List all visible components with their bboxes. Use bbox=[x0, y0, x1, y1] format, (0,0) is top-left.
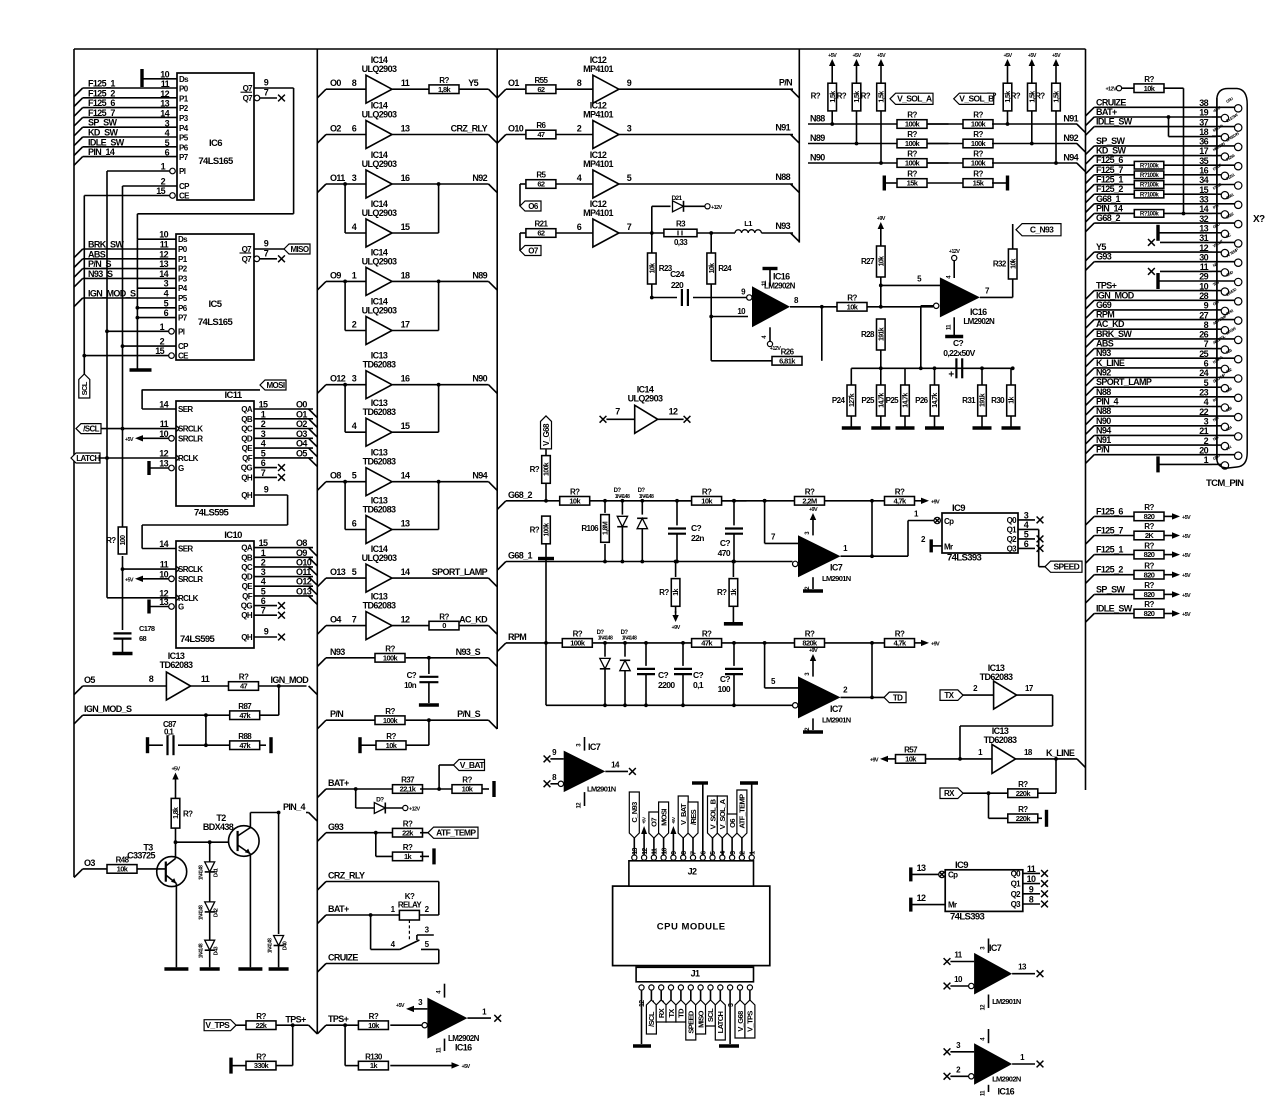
svg-text:V_G68: V_G68 bbox=[542, 423, 551, 446]
svg-text:2: 2 bbox=[160, 337, 165, 347]
svg-text:P/N_S: P/N_S bbox=[457, 709, 481, 719]
svg-text:13: 13 bbox=[159, 459, 168, 469]
svg-text:+5V: +5V bbox=[1182, 534, 1191, 540]
svg-text:IGN_MOD: IGN_MOD bbox=[271, 675, 310, 685]
svg-text:6: 6 bbox=[261, 458, 266, 468]
svg-text:QC: QC bbox=[241, 425, 253, 434]
svg-text:14: 14 bbox=[159, 539, 168, 549]
svg-text:15: 15 bbox=[155, 346, 164, 356]
svg-text:SP_SW: SP_SW bbox=[88, 118, 118, 128]
svg-text:N88: N88 bbox=[1096, 406, 1111, 416]
svg-text:1: 1 bbox=[261, 548, 266, 558]
svg-text:+12V: +12V bbox=[1105, 87, 1116, 93]
svg-text:33: 33 bbox=[1199, 195, 1208, 205]
svg-text:+5V: +5V bbox=[125, 437, 134, 443]
svg-text:15: 15 bbox=[401, 421, 410, 431]
svg-text:IC7: IC7 bbox=[588, 742, 601, 752]
svg-text:1N4148: 1N4148 bbox=[598, 636, 613, 642]
svg-text:R?: R? bbox=[570, 488, 580, 497]
svg-text:ULQ2903: ULQ2903 bbox=[362, 553, 397, 563]
svg-text:1,8k: 1,8k bbox=[173, 807, 180, 819]
svg-text:C?: C? bbox=[658, 670, 669, 680]
svg-text:QE: QE bbox=[242, 444, 254, 453]
svg-text:TD62083: TD62083 bbox=[363, 360, 396, 370]
svg-text:Mr: Mr bbox=[948, 901, 957, 910]
svg-text:1: 1 bbox=[261, 409, 266, 419]
svg-text:7: 7 bbox=[261, 606, 266, 616]
svg-text:PIN_4: PIN_4 bbox=[1096, 397, 1119, 407]
svg-text:8: 8 bbox=[1204, 320, 1209, 330]
svg-text:9: 9 bbox=[264, 239, 269, 249]
svg-text:MISO: MISO bbox=[696, 1010, 705, 1027]
svg-text:G93: G93 bbox=[1096, 252, 1112, 262]
svg-text:0,22x50V: 0,22x50V bbox=[943, 348, 975, 358]
svg-text:R?: R? bbox=[702, 630, 712, 639]
svg-text:D?: D? bbox=[376, 797, 384, 804]
svg-text:32: 32 bbox=[1199, 214, 1208, 224]
svg-text:ULQ2903: ULQ2903 bbox=[362, 159, 397, 169]
svg-text:SPEED: SPEED bbox=[1053, 562, 1079, 572]
svg-text:5: 5 bbox=[352, 567, 357, 577]
svg-text:O13: O13 bbox=[330, 567, 346, 577]
svg-text:R?100k: R?100k bbox=[1140, 162, 1159, 169]
svg-text:38: 38 bbox=[1199, 98, 1208, 108]
svg-text:N89: N89 bbox=[810, 133, 825, 143]
svg-text:QH: QH bbox=[241, 611, 253, 620]
svg-text:4,7k: 4,7k bbox=[893, 639, 907, 648]
svg-text:CP: CP bbox=[178, 342, 189, 351]
svg-text:10k: 10k bbox=[847, 302, 859, 311]
svg-text:F125_1: F125_1 bbox=[88, 79, 115, 89]
svg-text:10k: 10k bbox=[368, 1021, 380, 1030]
svg-text:10k: 10k bbox=[386, 741, 398, 750]
svg-text:1N4148: 1N4148 bbox=[615, 494, 630, 500]
svg-text:O10: O10 bbox=[508, 124, 524, 134]
svg-text:SP_SW: SP_SW bbox=[1096, 136, 1126, 146]
svg-text:+9V: +9V bbox=[877, 216, 886, 222]
svg-text:1,8M: 1,8M bbox=[603, 521, 610, 535]
svg-text:TD: TD bbox=[893, 693, 903, 702]
svg-text:O8: O8 bbox=[296, 538, 307, 548]
svg-text:47k: 47k bbox=[239, 741, 251, 750]
svg-text:+5V: +5V bbox=[462, 1064, 471, 1070]
svg-text:7: 7 bbox=[261, 468, 266, 478]
svg-text:2: 2 bbox=[352, 320, 357, 330]
svg-text:10k: 10k bbox=[649, 263, 656, 274]
svg-text:/SCL: /SCL bbox=[647, 1011, 656, 1027]
svg-text:N90: N90 bbox=[1096, 416, 1111, 426]
svg-text:Y5: Y5 bbox=[468, 78, 478, 88]
svg-text:10: 10 bbox=[954, 975, 963, 984]
svg-text:L1: L1 bbox=[744, 219, 752, 228]
svg-text:R?: R? bbox=[973, 111, 983, 120]
svg-text:O12: O12 bbox=[296, 577, 312, 587]
svg-text:QH: QH bbox=[241, 473, 253, 482]
svg-text:100: 100 bbox=[120, 535, 127, 546]
svg-text:9: 9 bbox=[1204, 301, 1209, 311]
svg-text:11: 11 bbox=[1200, 262, 1209, 272]
svg-text:P25: P25 bbox=[861, 396, 875, 405]
svg-text:3: 3 bbox=[627, 124, 632, 134]
svg-text:G: G bbox=[178, 603, 184, 612]
svg-text:3: 3 bbox=[352, 374, 357, 384]
svg-text:D41: D41 bbox=[214, 868, 220, 877]
svg-text:ULQ2903: ULQ2903 bbox=[362, 256, 397, 266]
svg-text:4: 4 bbox=[164, 289, 169, 299]
svg-text:R?: R? bbox=[386, 732, 396, 741]
svg-text:47: 47 bbox=[240, 682, 248, 691]
svg-text:O11: O11 bbox=[296, 567, 311, 577]
svg-text:IC10: IC10 bbox=[224, 530, 242, 541]
svg-text:5: 5 bbox=[1024, 529, 1029, 539]
svg-text:R?: R? bbox=[659, 588, 669, 597]
svg-text:SPEED: SPEED bbox=[687, 1010, 696, 1034]
svg-text:R?100k: R?100k bbox=[1140, 211, 1159, 218]
svg-text:100k: 100k bbox=[544, 523, 551, 537]
svg-text:4: 4 bbox=[261, 439, 266, 449]
svg-text:K_LINE: K_LINE bbox=[1046, 748, 1075, 758]
svg-text:5: 5 bbox=[627, 173, 632, 183]
svg-text:R21: R21 bbox=[534, 220, 548, 229]
svg-text:10k: 10k bbox=[701, 496, 713, 505]
svg-text:10k: 10k bbox=[1010, 258, 1017, 269]
svg-text:R?: R? bbox=[907, 130, 917, 139]
svg-text:J1: J1 bbox=[691, 969, 700, 979]
svg-text:10: 10 bbox=[661, 848, 668, 855]
svg-text:MOSI: MOSI bbox=[659, 809, 668, 826]
svg-text:N91: N91 bbox=[1096, 435, 1111, 445]
svg-text:SP_SW: SP_SW bbox=[1096, 584, 1126, 594]
svg-text:F125_6: F125_6 bbox=[88, 98, 115, 108]
svg-text:D42: D42 bbox=[214, 908, 220, 917]
svg-text:100: 100 bbox=[718, 684, 731, 694]
svg-text:N94: N94 bbox=[472, 471, 487, 481]
svg-text:R?: R? bbox=[811, 91, 821, 100]
svg-text:820: 820 bbox=[1144, 570, 1155, 579]
svg-text:8: 8 bbox=[149, 674, 154, 684]
svg-text:1N4148: 1N4148 bbox=[639, 494, 654, 500]
svg-text:ULQ2903: ULQ2903 bbox=[362, 306, 397, 316]
svg-text:1,5k: 1,5k bbox=[1054, 91, 1061, 103]
svg-text:8: 8 bbox=[577, 78, 582, 88]
svg-text:V_BAT: V_BAT bbox=[460, 760, 486, 770]
svg-text:11: 11 bbox=[652, 848, 659, 855]
svg-text:820: 820 bbox=[1144, 550, 1155, 559]
svg-text:AC_KD: AC_KD bbox=[459, 615, 488, 625]
svg-text:127k: 127k bbox=[849, 393, 856, 407]
svg-text:R?: R? bbox=[702, 488, 712, 497]
svg-text:3: 3 bbox=[352, 173, 357, 183]
svg-text:12: 12 bbox=[159, 249, 168, 259]
svg-text:820: 820 bbox=[1144, 512, 1155, 521]
svg-text:9: 9 bbox=[1029, 884, 1034, 894]
svg-text:O4: O4 bbox=[296, 439, 307, 449]
svg-text:F125_6: F125_6 bbox=[1096, 506, 1123, 516]
svg-text:2K: 2K bbox=[1145, 531, 1155, 540]
svg-text:QH: QH bbox=[241, 633, 253, 642]
svg-text:R?100k: R?100k bbox=[1140, 172, 1159, 179]
svg-text:KD_SW: KD_SW bbox=[88, 128, 119, 138]
svg-text:G93: G93 bbox=[328, 822, 344, 832]
svg-text:QA: QA bbox=[241, 405, 253, 414]
svg-text:0,1: 0,1 bbox=[693, 680, 704, 690]
svg-text:RCLK: RCLK bbox=[178, 594, 199, 603]
svg-text:14: 14 bbox=[159, 400, 168, 410]
svg-text:R?: R? bbox=[1144, 561, 1154, 570]
svg-text:12: 12 bbox=[669, 406, 678, 416]
svg-text:6: 6 bbox=[261, 596, 266, 606]
svg-text:IC6: IC6 bbox=[209, 138, 222, 149]
svg-text:+5V: +5V bbox=[1182, 515, 1191, 521]
svg-text:6: 6 bbox=[352, 519, 357, 529]
svg-text:12: 12 bbox=[639, 1000, 646, 1007]
svg-text:1: 1 bbox=[352, 270, 357, 280]
svg-text:10k: 10k bbox=[709, 263, 716, 274]
svg-text:R3: R3 bbox=[676, 220, 686, 229]
svg-text:14,7k: 14,7k bbox=[932, 393, 939, 408]
svg-text:R?: R? bbox=[895, 630, 905, 639]
svg-text:25: 25 bbox=[1199, 349, 1208, 359]
svg-text:IGN_MOD: IGN_MOD bbox=[1096, 290, 1135, 300]
svg-text:Q2: Q2 bbox=[1011, 890, 1022, 899]
svg-text:IDLE_SW: IDLE_SW bbox=[1096, 604, 1133, 614]
svg-text:R?: R? bbox=[837, 91, 847, 100]
svg-text:R?: R? bbox=[1011, 91, 1021, 100]
svg-text:+9V: +9V bbox=[809, 507, 818, 513]
svg-text:Y5: Y5 bbox=[1096, 242, 1106, 252]
svg-text:1k: 1k bbox=[1009, 397, 1016, 404]
svg-text:74LS393: 74LS393 bbox=[950, 912, 985, 923]
svg-text:14,7k: 14,7k bbox=[878, 393, 885, 408]
svg-text:24: 24 bbox=[1199, 368, 1208, 378]
svg-text:R?100k: R?100k bbox=[1140, 191, 1159, 198]
svg-text:IC16: IC16 bbox=[773, 272, 790, 282]
svg-text:C?: C? bbox=[720, 674, 731, 684]
svg-text:C?: C? bbox=[693, 670, 704, 680]
svg-text:IC9: IC9 bbox=[955, 860, 968, 871]
svg-text:O3: O3 bbox=[84, 858, 95, 868]
svg-text:R?: R? bbox=[973, 150, 983, 159]
svg-text:SRCLK: SRCLK bbox=[178, 425, 203, 434]
svg-text:MP4101: MP4101 bbox=[583, 110, 613, 120]
svg-text:QG: QG bbox=[241, 602, 253, 611]
svg-text:31: 31 bbox=[1199, 233, 1208, 243]
svg-text:5: 5 bbox=[261, 586, 266, 596]
svg-text:1k: 1k bbox=[673, 589, 680, 596]
svg-text:74LS393: 74LS393 bbox=[947, 553, 982, 564]
svg-text:3: 3 bbox=[261, 567, 266, 577]
svg-text:C?: C? bbox=[407, 671, 417, 680]
svg-text:J2: J2 bbox=[688, 867, 697, 877]
svg-text:N94: N94 bbox=[1096, 425, 1111, 435]
svg-text:TD62083: TD62083 bbox=[984, 735, 1017, 745]
svg-text:100k: 100k bbox=[383, 716, 399, 725]
svg-text:+: + bbox=[948, 370, 954, 381]
svg-text:O11: O11 bbox=[330, 173, 345, 183]
svg-text:N91: N91 bbox=[1063, 114, 1078, 124]
svg-text:O0: O0 bbox=[296, 400, 307, 410]
svg-text:SPORT_LAMP: SPORT_LAMP bbox=[1096, 377, 1152, 387]
svg-text:+5V: +5V bbox=[1182, 593, 1191, 599]
svg-text:V_TPS: V_TPS bbox=[746, 1011, 755, 1032]
svg-text:10: 10 bbox=[160, 69, 169, 79]
svg-text:R?: R? bbox=[973, 170, 983, 179]
svg-text:O1: O1 bbox=[296, 409, 307, 419]
svg-text:SER: SER bbox=[178, 405, 193, 414]
svg-text:1N4148: 1N4148 bbox=[267, 938, 273, 953]
svg-text:14: 14 bbox=[611, 761, 620, 770]
svg-text:MP4101: MP4101 bbox=[583, 159, 613, 169]
svg-text:SCL: SCL bbox=[80, 381, 89, 395]
svg-text:0,33: 0,33 bbox=[674, 238, 688, 247]
svg-text:IC11: IC11 bbox=[224, 390, 242, 401]
svg-text:2: 2 bbox=[161, 177, 166, 187]
svg-text:14,7k: 14,7k bbox=[903, 393, 910, 408]
svg-text:CE: CE bbox=[178, 352, 189, 361]
svg-text:12: 12 bbox=[401, 615, 410, 625]
svg-text:+12V: +12V bbox=[770, 346, 781, 352]
svg-text:R?: R? bbox=[907, 170, 917, 179]
svg-text:BAT+: BAT+ bbox=[1096, 107, 1117, 117]
svg-text:ULQ2903: ULQ2903 bbox=[628, 393, 663, 403]
svg-text:R?: R? bbox=[1144, 75, 1154, 84]
svg-text:LATCH: LATCH bbox=[716, 1011, 725, 1033]
svg-text:P3: P3 bbox=[178, 274, 188, 283]
svg-text:100k: 100k bbox=[544, 462, 551, 476]
svg-text:820: 820 bbox=[1144, 609, 1155, 618]
svg-text:G68_2: G68_2 bbox=[1096, 213, 1121, 223]
svg-text:V_SOL_A: V_SOL_A bbox=[897, 94, 932, 104]
svg-text:BAT+: BAT+ bbox=[328, 778, 349, 788]
svg-text:R?: R? bbox=[106, 536, 116, 545]
svg-text:N89: N89 bbox=[472, 270, 487, 280]
svg-text:5: 5 bbox=[164, 298, 169, 308]
svg-text:15: 15 bbox=[259, 400, 268, 410]
svg-text:R?: R? bbox=[369, 1012, 379, 1021]
svg-text:TD62083: TD62083 bbox=[363, 457, 396, 467]
svg-text:CRZ_RLY: CRZ_RLY bbox=[328, 871, 365, 881]
svg-text:V_G68: V_G68 bbox=[736, 1011, 745, 1032]
svg-text:+5V: +5V bbox=[852, 53, 861, 59]
svg-text:8: 8 bbox=[352, 78, 357, 88]
svg-text:C_N93: C_N93 bbox=[1030, 225, 1054, 235]
svg-text:F125_2: F125_2 bbox=[1096, 184, 1123, 194]
svg-text:Mr: Mr bbox=[944, 543, 953, 552]
svg-text:R5: R5 bbox=[536, 171, 546, 180]
svg-text:C?: C? bbox=[953, 338, 964, 348]
svg-text:17: 17 bbox=[401, 320, 410, 330]
svg-text:10: 10 bbox=[1027, 874, 1036, 884]
svg-text:11: 11 bbox=[1027, 864, 1036, 874]
svg-text:10k: 10k bbox=[905, 755, 917, 764]
svg-text:TD62083: TD62083 bbox=[363, 505, 396, 515]
svg-text:6: 6 bbox=[164, 308, 169, 318]
svg-text:R?: R? bbox=[1018, 805, 1028, 814]
svg-text:R?: R? bbox=[1144, 600, 1154, 609]
svg-text:RX: RX bbox=[944, 789, 955, 798]
svg-text:V_SOL_B: V_SOL_B bbox=[959, 94, 994, 104]
svg-text:O3: O3 bbox=[296, 429, 307, 439]
svg-text:9: 9 bbox=[264, 627, 269, 637]
svg-text:TD62083: TD62083 bbox=[363, 601, 396, 611]
svg-text:SRCLR: SRCLR bbox=[178, 575, 203, 584]
svg-text:17: 17 bbox=[1199, 146, 1208, 156]
svg-text:+9V: +9V bbox=[672, 625, 681, 631]
svg-text:7: 7 bbox=[1204, 339, 1209, 349]
svg-text:PIN_4: PIN_4 bbox=[283, 802, 306, 812]
svg-text:R?: R? bbox=[239, 673, 249, 682]
svg-text:330k: 330k bbox=[254, 1061, 270, 1070]
svg-text:O8: O8 bbox=[330, 471, 341, 481]
svg-text:IC7: IC7 bbox=[989, 943, 1002, 953]
svg-text:74LS165: 74LS165 bbox=[198, 317, 234, 328]
svg-text:R30: R30 bbox=[991, 396, 1005, 405]
svg-text:10: 10 bbox=[737, 307, 746, 316]
svg-text:R?: R? bbox=[256, 1052, 266, 1061]
svg-text:QF: QF bbox=[242, 454, 253, 463]
svg-text:8: 8 bbox=[1029, 895, 1034, 905]
svg-text:P6: P6 bbox=[179, 143, 189, 152]
svg-text:191k: 191k bbox=[980, 393, 987, 407]
svg-text:Pl: Pl bbox=[179, 167, 186, 176]
svg-text:30: 30 bbox=[1199, 252, 1208, 262]
svg-text:+9V: +9V bbox=[931, 499, 940, 505]
svg-text:P25: P25 bbox=[886, 396, 900, 405]
svg-text:23: 23 bbox=[1199, 388, 1208, 398]
svg-text:4: 4 bbox=[261, 577, 266, 587]
svg-text:+5V: +5V bbox=[1182, 573, 1191, 579]
svg-text:1: 1 bbox=[160, 322, 165, 332]
svg-text:820k: 820k bbox=[802, 639, 818, 648]
svg-text:P7: P7 bbox=[179, 153, 189, 162]
svg-text:SCL: SCL bbox=[706, 1008, 715, 1022]
svg-text:R26: R26 bbox=[781, 348, 795, 357]
svg-text:Q3: Q3 bbox=[1011, 900, 1022, 909]
svg-text:74LS595: 74LS595 bbox=[194, 508, 230, 519]
svg-text:4: 4 bbox=[1024, 520, 1029, 530]
svg-text:PIN_14: PIN_14 bbox=[88, 147, 115, 157]
svg-text:R?: R? bbox=[439, 76, 449, 85]
svg-text:KD_SW: KD_SW bbox=[1096, 146, 1127, 156]
svg-text:4: 4 bbox=[577, 173, 582, 183]
svg-text:35: 35 bbox=[1199, 156, 1208, 166]
svg-text:R?: R? bbox=[907, 150, 917, 159]
svg-text:IGN_MOD_S: IGN_MOD_S bbox=[88, 289, 136, 299]
svg-text:22k: 22k bbox=[256, 1021, 268, 1030]
svg-text:2: 2 bbox=[577, 124, 582, 134]
svg-text:ATF_TEMP: ATF_TEMP bbox=[738, 794, 747, 829]
svg-text:N93: N93 bbox=[330, 647, 345, 657]
svg-text:IC16: IC16 bbox=[455, 1042, 472, 1052]
svg-text:F125_2: F125_2 bbox=[88, 88, 115, 98]
svg-text:O10: O10 bbox=[296, 557, 312, 567]
svg-text:O12: O12 bbox=[330, 374, 346, 384]
svg-text:11: 11 bbox=[954, 951, 962, 960]
svg-text:O7: O7 bbox=[528, 246, 539, 255]
svg-text:QG: QG bbox=[241, 464, 253, 473]
svg-text:+12V: +12V bbox=[949, 249, 960, 255]
svg-text:10k: 10k bbox=[1144, 84, 1156, 93]
svg-text:IC5: IC5 bbox=[209, 299, 223, 310]
svg-text:R?: R? bbox=[573, 630, 583, 639]
svg-text:P2: P2 bbox=[179, 104, 189, 113]
svg-text:100k: 100k bbox=[905, 139, 921, 148]
svg-text:100k: 100k bbox=[971, 159, 987, 168]
svg-text:N91: N91 bbox=[775, 123, 790, 133]
svg-text:+5V: +5V bbox=[396, 1003, 405, 1009]
svg-text:Q0: Q0 bbox=[1011, 869, 1022, 878]
svg-text:15: 15 bbox=[156, 186, 165, 196]
